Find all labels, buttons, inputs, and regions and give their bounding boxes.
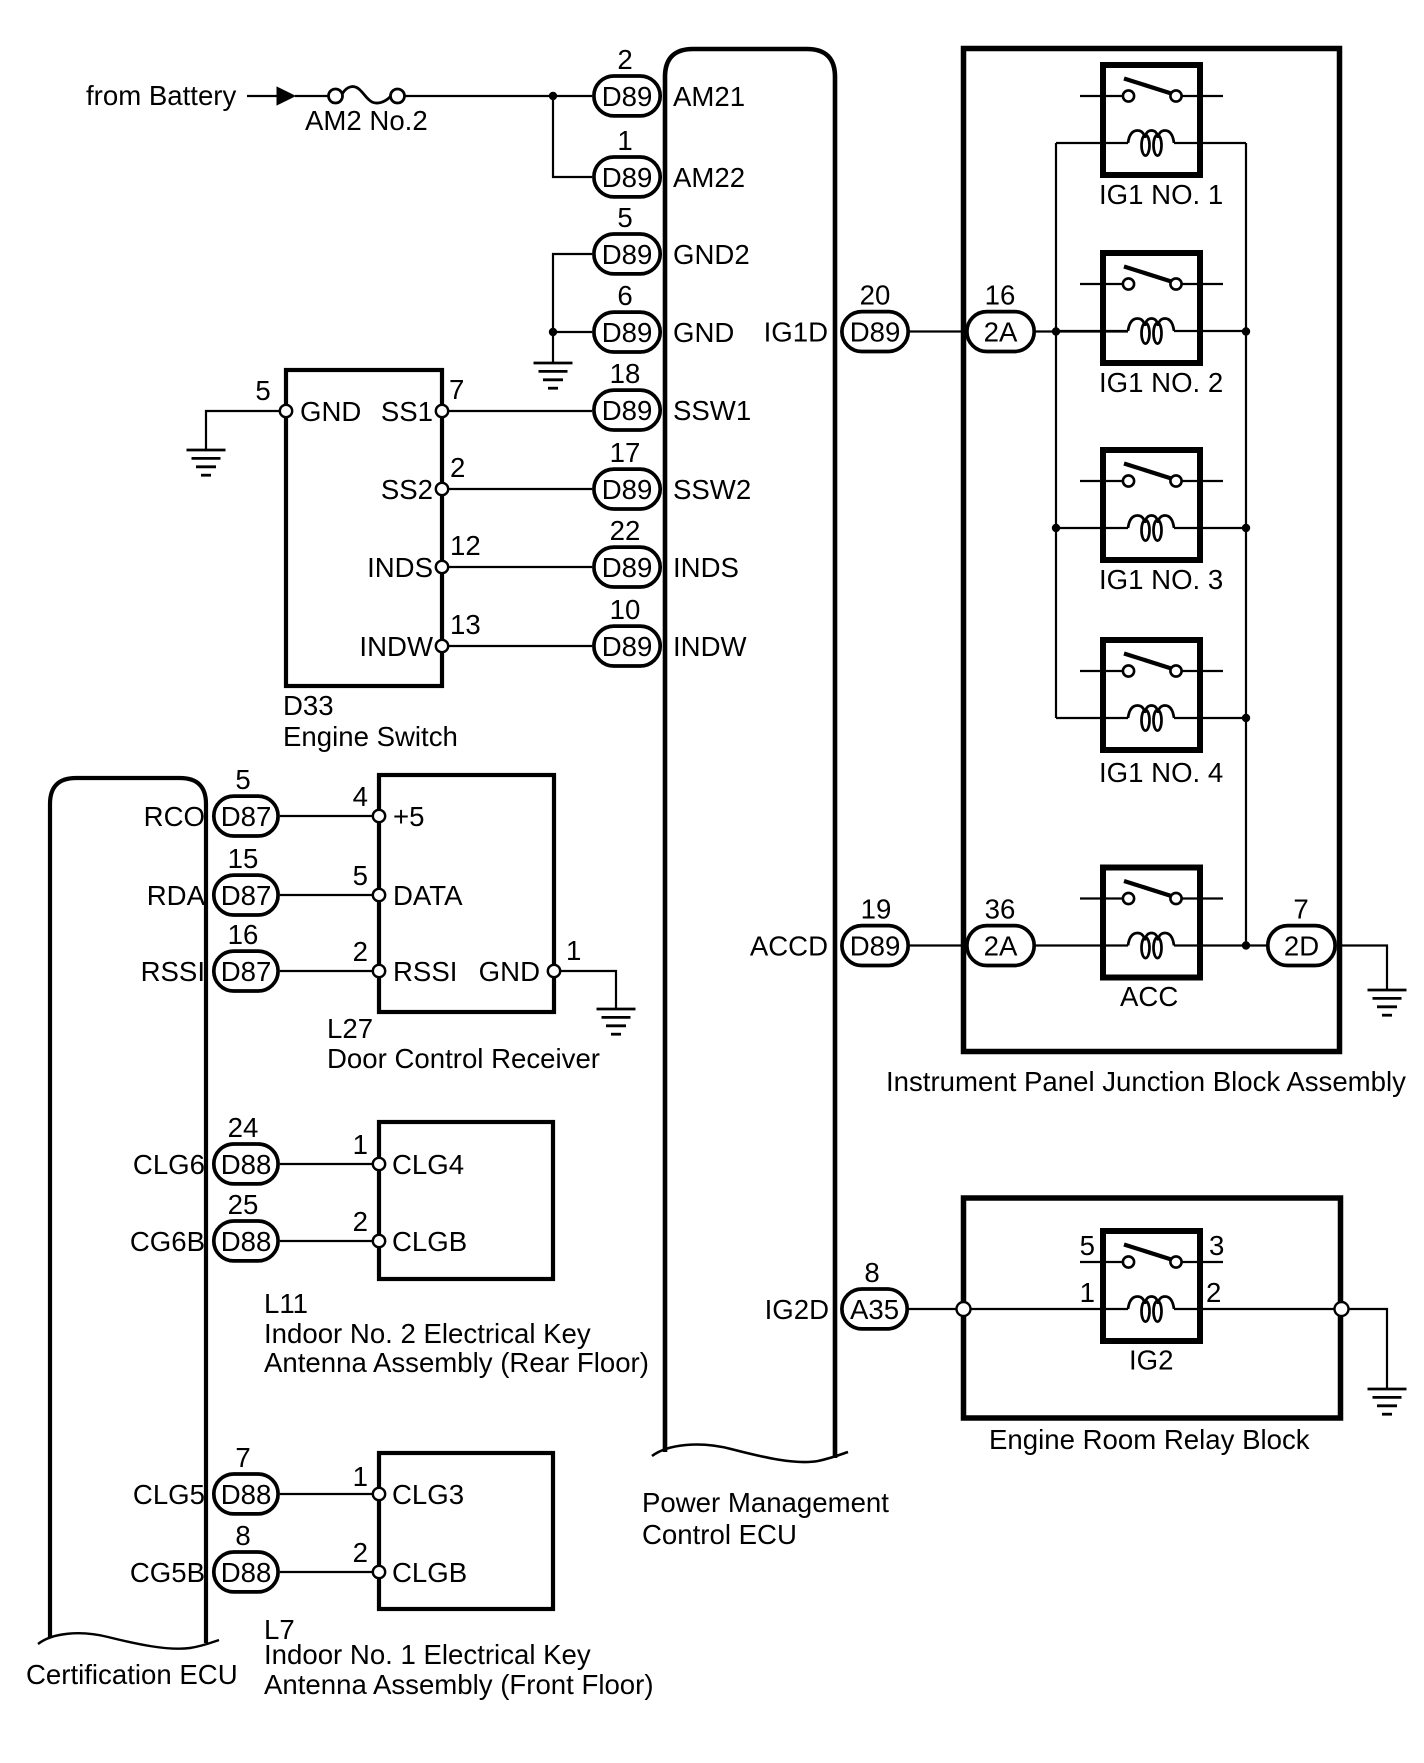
- svg-text:D89: D89: [602, 552, 653, 583]
- block: Instrument Panel Junction Block Assembly: [964, 49, 1340, 1052]
- svg-text:7: 7: [449, 374, 464, 405]
- connector 2A pin 16: [967, 312, 1034, 352]
- svg-text:Engine Room Relay Block: Engine Room Relay Block: [989, 1424, 1310, 1455]
- svg-text:Control ECU: Control ECU: [642, 1519, 797, 1550]
- svg-text:L27: L27: [327, 1013, 373, 1044]
- wire CG5B: [280, 1571, 373, 1573]
- svg-text:2: 2: [617, 44, 632, 75]
- svg-text:Power Management: Power Management: [642, 1487, 889, 1518]
- wire SS2 to SSW2: [448, 488, 592, 490]
- node dot left bus row3: [1052, 524, 1060, 532]
- svg-text:2A: 2A: [984, 317, 1018, 348]
- svg-text:16: 16: [228, 919, 259, 950]
- svg-text:IG2D: IG2D: [765, 1294, 829, 1325]
- svg-text:GND: GND: [673, 317, 734, 348]
- svg-text:16: 16: [985, 280, 1016, 311]
- wire arrow to fuse: [295, 95, 328, 97]
- svg-text:7: 7: [235, 1442, 250, 1473]
- svg-text:17: 17: [610, 437, 641, 468]
- wire INDS to INDS: [448, 566, 592, 568]
- connector D89 pin 2 (AM21): [594, 76, 660, 116]
- svg-text:A35: A35: [850, 1294, 899, 1325]
- svg-text:CG6B: CG6B: [130, 1226, 205, 1257]
- connector D88 pin 8 (CG5B): [214, 1552, 278, 1592]
- svg-text:19: 19: [861, 894, 892, 925]
- svg-text:INDW: INDW: [673, 631, 747, 662]
- svg-text:D88: D88: [221, 1479, 272, 1510]
- svg-text:Indoor No. 2 Electrical Key: Indoor No. 2 Electrical Key: [264, 1318, 591, 1349]
- wire 2A to ACC coil: [1036, 944, 1128, 946]
- svg-text:D89: D89: [602, 239, 653, 270]
- ground: [597, 1009, 636, 1034]
- connector D87 pin 16 (RSSI): [214, 951, 278, 991]
- wire IG2 coil to right pin: [1174, 1308, 1335, 1310]
- wire D33 GND to ground: [206, 411, 280, 450]
- svg-text:Indoor No. 1 Electrical Key: Indoor No. 1 Electrical Key: [264, 1639, 591, 1670]
- svg-text:2D: 2D: [1284, 931, 1319, 962]
- wire block right pin to ground: [1349, 1309, 1388, 1389]
- svg-text:AM21: AM21: [673, 81, 745, 112]
- connector D89 pin 1 (AM22): [594, 157, 660, 197]
- wire 2D to ground: [1337, 946, 1387, 991]
- connector D89 pin 17 (SSW2): [594, 469, 660, 509]
- node dot right bus at ACC: [1242, 941, 1250, 949]
- svg-text:RSSI: RSSI: [141, 956, 205, 987]
- svg-text:ACCD: ACCD: [750, 931, 828, 962]
- node ground junction: [549, 328, 557, 336]
- relay IG2: [1080, 1231, 1223, 1341]
- wire coil feed left IG1 NO. 2: [1056, 330, 1128, 332]
- svg-text:D88: D88: [221, 1226, 272, 1257]
- wire CLG5: [280, 1493, 373, 1495]
- svg-text:Engine Switch: Engine Switch: [283, 721, 458, 752]
- svg-text:12: 12: [450, 530, 481, 561]
- svg-text:D87: D87: [221, 880, 272, 911]
- wire SS1 to SSW1: [448, 410, 592, 412]
- svg-text:1: 1: [353, 1129, 368, 1160]
- svg-text:GND: GND: [300, 396, 361, 427]
- svg-text:D89: D89: [602, 162, 653, 193]
- svg-text:SSW1: SSW1: [673, 395, 751, 426]
- svg-text:CLG6: CLG6: [133, 1149, 205, 1180]
- relay IG1 NO. 1: [1080, 65, 1223, 175]
- svg-text:RSSI: RSSI: [393, 956, 457, 987]
- svg-text:INDS: INDS: [673, 552, 739, 583]
- node dot right bus row3: [1242, 524, 1250, 532]
- wire block pin to IG2 coil: [971, 1308, 1128, 1310]
- svg-text:22: 22: [610, 515, 641, 546]
- wire coil feed right IG1 NO. 2: [1174, 330, 1246, 332]
- svg-text:IG1D: IG1D: [764, 317, 828, 348]
- svg-text:D89: D89: [602, 81, 653, 112]
- connector D89 pin 18 (SSW1): [594, 390, 660, 430]
- connector D88 pin 25 (CG6B): [214, 1221, 278, 1261]
- svg-text:Certification ECU: Certification ECU: [26, 1659, 238, 1690]
- relay ACC: [1080, 868, 1223, 978]
- pin on relay block left edge: [957, 1302, 971, 1316]
- svg-text:D89: D89: [602, 474, 653, 505]
- svg-text:GND: GND: [479, 956, 540, 987]
- svg-text:Door Control Receiver: Door Control Receiver: [327, 1043, 600, 1074]
- svg-text:5: 5: [353, 860, 368, 891]
- relay IG1 NO. 3: [1080, 450, 1223, 560]
- relay IG1 NO. 4: [1080, 640, 1223, 750]
- svg-text:8: 8: [864, 1257, 879, 1288]
- connector 2A pin 36: [967, 926, 1034, 966]
- svg-text:D88: D88: [221, 1149, 272, 1180]
- svg-text:6: 6: [617, 280, 632, 311]
- wire junction down to AM22: [553, 96, 592, 177]
- connector D89 pin 6 (GND): [594, 312, 660, 352]
- ground: [1368, 1389, 1407, 1414]
- wire coil feed right IG1 NO. 4: [1174, 717, 1246, 719]
- wire right relay bus: [1245, 143, 1247, 946]
- svg-text:CLG5: CLG5: [133, 1479, 205, 1510]
- wire coil feed left IG1 NO. 3: [1056, 527, 1128, 529]
- wire fuse to AM21: [405, 95, 593, 97]
- wire L27 GND to ground: [560, 971, 616, 1009]
- ground: [187, 450, 226, 475]
- svg-text:2: 2: [353, 1206, 368, 1237]
- svg-text:15: 15: [228, 843, 259, 874]
- connector D89 pin 19 (ACCD): [842, 926, 908, 966]
- svg-text:7: 7: [1293, 894, 1308, 925]
- svg-text:D89: D89: [602, 395, 653, 426]
- wire RCO: [280, 815, 373, 817]
- svg-text:RCO: RCO: [144, 801, 205, 832]
- svg-text:1: 1: [353, 1461, 368, 1492]
- node junction at battery feed: [549, 92, 557, 100]
- svg-text:INDW: INDW: [359, 631, 433, 662]
- svg-text:IG1 NO. 1: IG1 NO. 1: [1099, 179, 1223, 210]
- svg-text:CLGB: CLGB: [392, 1557, 467, 1588]
- svg-text:D89: D89: [850, 317, 901, 348]
- wire ACC coil to 2D: [1174, 944, 1266, 946]
- svg-text:Antenna Assembly (Rear Floor): Antenna Assembly (Rear Floor): [264, 1347, 649, 1378]
- svg-text:13: 13: [450, 609, 481, 640]
- svg-text:CLG3: CLG3: [392, 1479, 464, 1510]
- svg-text:1: 1: [566, 935, 581, 966]
- svg-text:SS2: SS2: [381, 474, 433, 505]
- connector D88 pin 7 (CLG5): [214, 1474, 278, 1514]
- node dot right bus row4: [1242, 714, 1250, 722]
- svg-text:GND2: GND2: [673, 239, 750, 270]
- svg-text:4: 4: [353, 781, 368, 812]
- wire IG2D A35 to relay block: [909, 1308, 956, 1310]
- svg-text:8: 8: [235, 1520, 250, 1551]
- svg-text:2: 2: [353, 1537, 368, 1568]
- svg-text:INDS: INDS: [367, 552, 433, 583]
- svg-text:D89: D89: [602, 631, 653, 662]
- svg-text:10: 10: [610, 594, 641, 625]
- svg-text:+5: +5: [393, 801, 424, 832]
- connector D87 pin 5 (RCO): [214, 796, 278, 836]
- wire CG6B: [280, 1240, 373, 1242]
- svg-text:CG5B: CG5B: [130, 1557, 205, 1588]
- svg-text:D87: D87: [221, 956, 272, 987]
- connector 2D pin 7: [1268, 926, 1335, 966]
- node dot left bus row2: [1052, 327, 1060, 335]
- wire IG1D D89 to 2A: [910, 330, 965, 332]
- connector D88 pin 24 (CLG6): [214, 1144, 278, 1184]
- wire GND to ground bus: [553, 331, 592, 333]
- svg-text:AM2 No.2: AM2 No.2: [305, 105, 428, 136]
- svg-text:from Battery: from Battery: [86, 80, 236, 111]
- wire left relay bus: [1055, 143, 1057, 718]
- connector A35 pin 8 (IG2D): [842, 1289, 907, 1329]
- svg-text:IG1 NO. 2: IG1 NO. 2: [1099, 367, 1223, 398]
- svg-text:36: 36: [985, 894, 1016, 925]
- block: Engine Room Relay Block: [964, 1198, 1341, 1418]
- connector D89 pin 22 (INDS): [594, 547, 660, 587]
- svg-text:5: 5: [1080, 1230, 1095, 1261]
- wire ACCD D89 to 2A: [910, 944, 965, 946]
- connector D89 pin 20 (IG1D): [842, 312, 908, 352]
- ECU: Certification ECU outline: [38, 778, 219, 1649]
- svg-text:D33: D33: [283, 690, 334, 721]
- arrow: [277, 87, 295, 105]
- wire GND2 to ground bus: [553, 254, 592, 363]
- ECU: Power Management Control ECU outline: [652, 49, 848, 1462]
- svg-text:AM22: AM22: [673, 162, 745, 193]
- svg-text:D89: D89: [602, 317, 653, 348]
- connector D89 pin 10 (INDW): [594, 626, 660, 666]
- svg-text:L11: L11: [264, 1288, 308, 1319]
- svg-text:Antenna Assembly (Front Floor): Antenna Assembly (Front Floor): [264, 1669, 654, 1700]
- wire RDA: [280, 894, 373, 896]
- svg-text:18: 18: [610, 358, 641, 389]
- relay IG1 NO. 2: [1080, 253, 1223, 363]
- svg-text:CLGB: CLGB: [392, 1226, 467, 1257]
- svg-text:2A: 2A: [984, 931, 1018, 962]
- svg-text:25: 25: [228, 1189, 259, 1220]
- svg-text:2: 2: [353, 936, 368, 967]
- svg-text:D87: D87: [221, 801, 272, 832]
- svg-text:5: 5: [235, 764, 250, 795]
- wire coil feed left IG1 NO. 1: [1056, 142, 1128, 144]
- svg-text:1: 1: [617, 125, 632, 156]
- svg-text:5: 5: [255, 375, 270, 406]
- wire INDW to INDW: [448, 645, 592, 647]
- svg-text:24: 24: [228, 1112, 259, 1143]
- fuse AM2 No.2: [329, 87, 405, 103]
- svg-text:CLG4: CLG4: [392, 1149, 464, 1180]
- svg-text:IG2: IG2: [1129, 1345, 1173, 1376]
- wire RSSI: [280, 970, 373, 972]
- svg-text:D89: D89: [850, 931, 901, 962]
- svg-text:SSW2: SSW2: [673, 474, 751, 505]
- wire coil feed left IG1 NO. 4: [1056, 717, 1128, 719]
- svg-text:IG1 NO. 4: IG1 NO. 4: [1099, 757, 1223, 788]
- svg-text:D88: D88: [221, 1557, 272, 1588]
- component L27 Door Control Receiver box: [379, 775, 554, 1012]
- connector D87 pin 15 (RDA): [214, 875, 278, 915]
- wire 2A to IG1 relays bus: [1036, 330, 1128, 332]
- svg-text:SS1: SS1: [381, 396, 433, 427]
- connector D89 pin 5 (GND2): [594, 234, 660, 274]
- component L11 antenna box: [379, 1122, 553, 1279]
- svg-text:RDA: RDA: [147, 880, 206, 911]
- component L7 antenna box: [379, 1453, 553, 1609]
- svg-text:IG1 NO. 3: IG1 NO. 3: [1099, 564, 1223, 595]
- wire coil feed right IG1 NO. 1: [1174, 142, 1246, 144]
- svg-text:DATA: DATA: [393, 880, 463, 911]
- svg-text:ACC: ACC: [1120, 981, 1178, 1012]
- ground: [534, 363, 573, 388]
- svg-text:20: 20: [860, 280, 891, 311]
- node dot right bus row2: [1242, 327, 1250, 335]
- wire coil feed right IG1 NO. 3: [1174, 527, 1246, 529]
- svg-text:Instrument Panel Junction Bloc: Instrument Panel Junction Block Assembly: [886, 1066, 1406, 1097]
- wire from Battery to arrow: [247, 95, 277, 97]
- svg-text:2: 2: [1206, 1277, 1221, 1308]
- svg-text:3: 3: [1209, 1230, 1224, 1261]
- pin on relay block right edge: [1335, 1302, 1349, 1316]
- ground: [1368, 990, 1407, 1015]
- wire CLG6: [280, 1163, 373, 1165]
- svg-text:5: 5: [617, 202, 632, 233]
- svg-text:2: 2: [450, 452, 465, 483]
- component D33 Engine Switch box: [286, 370, 442, 686]
- svg-text:1: 1: [1080, 1277, 1095, 1308]
